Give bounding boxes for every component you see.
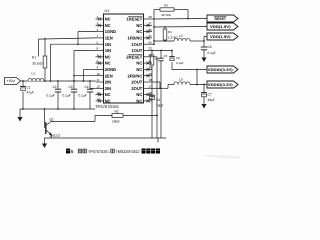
svg-text:2EN: 2EN: [105, 73, 113, 78]
svg-text:C9: C9: [156, 98, 160, 102]
svg-text:0.1µF: 0.1µF: [47, 94, 55, 98]
svg-text:18: 18: [148, 78, 152, 82]
svg-text:NC: NC: [136, 99, 142, 104]
svg-text:1GND: 1GND: [105, 29, 116, 34]
svg-text:2GND: 2GND: [105, 67, 116, 72]
svg-text:NC: NC: [105, 92, 111, 97]
svg-text:1IN: 1IN: [105, 42, 111, 47]
svg-text:1FB/NC: 1FB/NC: [128, 36, 143, 41]
svg-text:2OUT: 2OUT: [131, 86, 142, 91]
svg-text:47µF: 47µF: [27, 91, 34, 95]
svg-text:17: 17: [148, 85, 152, 89]
svg-text:0.1µF: 0.1µF: [208, 51, 216, 55]
svg-text:C4: C4: [85, 85, 89, 89]
svg-text:NC: NC: [105, 61, 111, 66]
svg-text:30.1kΩ: 30.1kΩ: [32, 62, 43, 66]
svg-text:24: 24: [148, 40, 152, 44]
svg-text:1RESET: 1RESET: [126, 17, 142, 22]
svg-text:C1: C1: [27, 86, 31, 90]
svg-text:26: 26: [148, 28, 152, 32]
svg-text:NC: NC: [136, 67, 142, 72]
svg-text:2N2222: 2N2222: [50, 134, 61, 138]
svg-text:TMS320F2812: TMS320F2812: [116, 149, 141, 154]
svg-text:27: 27: [148, 22, 152, 26]
svg-text:RESET: RESET: [215, 17, 227, 21]
svg-text:20: 20: [148, 66, 152, 70]
svg-text:1OUT: 1OUT: [131, 42, 142, 47]
svg-text:VDDIO(3.3V): VDDIO(3.3V): [208, 68, 234, 72]
svg-text:TPS767D301: TPS767D301: [95, 104, 120, 109]
svg-text:2IN: 2IN: [105, 80, 111, 85]
svg-text:NC: NC: [105, 23, 111, 28]
svg-text:C3: C3: [69, 85, 73, 89]
svg-text:1EN: 1EN: [105, 36, 113, 41]
svg-text:C7: C7: [208, 93, 212, 97]
svg-text:R2: R2: [115, 110, 119, 114]
svg-text:2FB/NC: 2FB/NC: [128, 73, 143, 78]
svg-text:19: 19: [148, 72, 152, 76]
svg-text:10: 10: [97, 72, 101, 76]
svg-text:NC: NC: [105, 54, 111, 59]
svg-text:U1: U1: [105, 9, 110, 13]
svg-text:2RESET: 2RESET: [126, 54, 142, 59]
svg-text:12: 12: [97, 85, 101, 89]
svg-text:0.1µF: 0.1µF: [176, 61, 184, 65]
svg-text:R1: R1: [32, 56, 36, 60]
svg-text:11: 11: [97, 78, 100, 82]
svg-text:NC: NC: [136, 92, 142, 97]
svg-text:NC: NC: [136, 61, 142, 66]
svg-text:R3: R3: [164, 4, 168, 8]
svg-text:+5V: +5V: [6, 79, 17, 83]
svg-text:NC: NC: [105, 99, 111, 104]
svg-text:28: 28: [148, 15, 152, 19]
svg-text:L2: L2: [179, 34, 183, 38]
svg-text:L1: L1: [32, 71, 36, 75]
svg-text:TPS767D301: TPS767D301: [88, 149, 110, 154]
svg-text:C5: C5: [164, 54, 168, 58]
svg-text:C6: C6: [208, 45, 212, 49]
svg-text:2OUT: 2OUT: [131, 80, 142, 85]
svg-text:0.1µF: 0.1µF: [79, 94, 87, 98]
svg-text:VDD(1.9V): VDD(1.9V): [210, 25, 232, 29]
svg-text:NC: NC: [136, 23, 142, 28]
svg-text:0.1µF: 0.1µF: [63, 94, 71, 98]
svg-text:2IN: 2IN: [105, 86, 111, 91]
svg-text:28.7kΩ: 28.7kΩ: [162, 13, 172, 17]
svg-text:NC: NC: [136, 29, 142, 34]
svg-text:1OUT: 1OUT: [131, 48, 142, 53]
svg-text:VDDIO(3.3V): VDDIO(3.3V): [208, 83, 234, 87]
svg-text:1.27kΩ: 1.27kΩ: [168, 36, 178, 40]
svg-text:10kΩ: 10kΩ: [112, 119, 120, 123]
svg-text:25: 25: [148, 34, 152, 38]
svg-text:33µF: 33µF: [208, 98, 215, 102]
svg-text:NC: NC: [105, 17, 111, 22]
svg-text:C8: C8: [176, 56, 180, 60]
svg-text:16: 16: [148, 91, 152, 95]
svg-text:R4: R4: [168, 30, 172, 34]
svg-text:VDD(1.9V): VDD(1.9V): [210, 35, 232, 39]
svg-text:L3: L3: [179, 78, 183, 82]
svg-text:Q1: Q1: [50, 118, 54, 122]
svg-text:C2: C2: [53, 85, 57, 89]
svg-text:1IN: 1IN: [105, 48, 111, 53]
